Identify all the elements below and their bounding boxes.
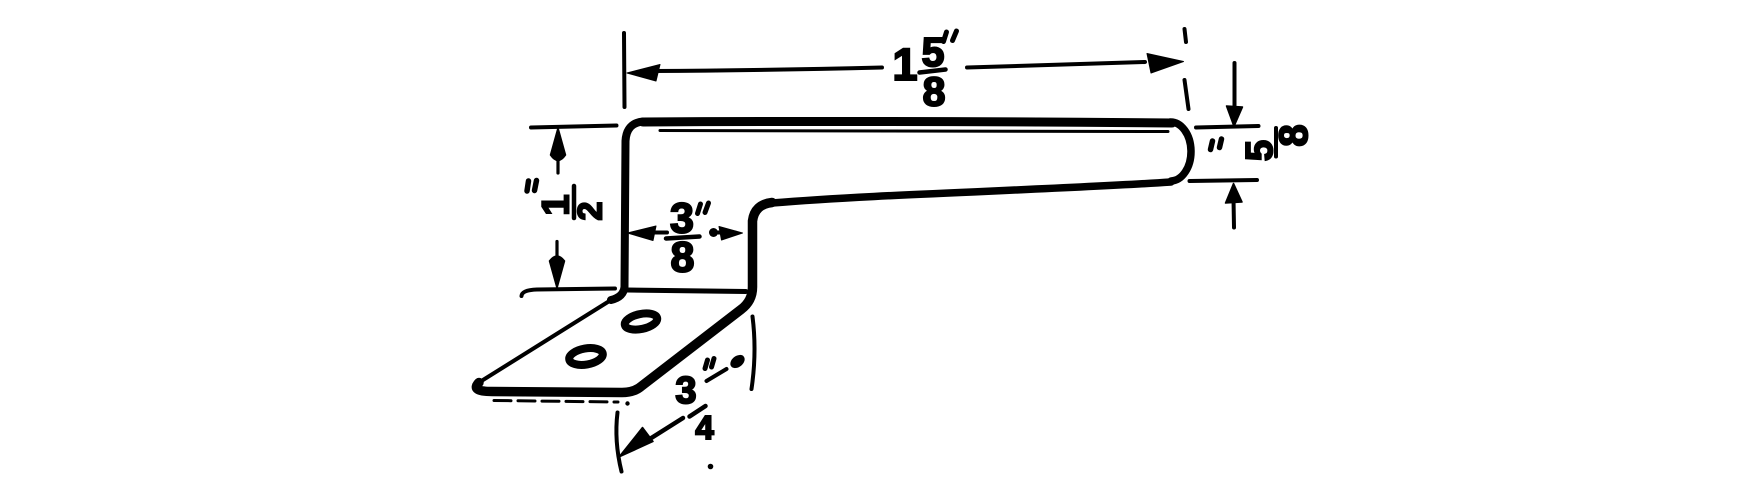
svg-text:4: 4 xyxy=(695,409,714,446)
svg-text:2: 2 xyxy=(572,202,610,221)
svg-text:8: 8 xyxy=(1272,124,1316,146)
svg-text:1: 1 xyxy=(892,39,917,90)
svg-text:8: 8 xyxy=(923,69,946,115)
svg-text:8: 8 xyxy=(671,234,695,282)
svg-text:3: 3 xyxy=(675,370,696,412)
